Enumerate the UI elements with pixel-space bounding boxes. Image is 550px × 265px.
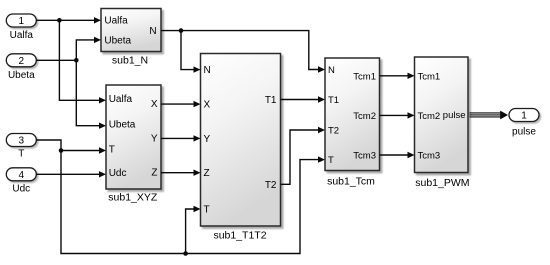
label T (inport 3) [18,148,24,159]
wire sub1_PWM pulse to outport (vector triple line) [470,111,509,120]
junction on inport2 wire [74,58,79,63]
svg-text:T1: T1 [265,95,277,106]
label sub1_XYZ [108,192,158,204]
wire sub1_Tcm Tcm2 to sub1_PWM Tcm2 [380,112,415,118]
svg-text:T2: T2 [265,180,277,191]
svg-text:Tcm1: Tcm1 [353,71,376,82]
svg-text:Tcm2: Tcm2 [353,111,376,122]
wire branch N to sub1_T1T2 N [181,31,201,73]
wire branch inport1 to sub1_XYZ Ualfa [59,20,106,103]
svg-text:Ubeta: Ubeta [109,120,136,131]
wire inport3 trunk (down and along bottom) [36,140,325,254]
svg-text:2: 2 [19,56,25,67]
junction inport3 wire to sub1_XYZ T [59,148,64,153]
svg-text:sub1_XYZ: sub1_XYZ [108,192,158,204]
subsystem sub1_N [101,9,161,52]
svg-text:Tcm3: Tcm3 [418,151,441,162]
svg-text:T: T [328,155,334,166]
svg-text:T: T [109,144,115,155]
label sub1_T1T2 [213,229,266,241]
label Ubeta (inport 2) [8,70,35,81]
wire sub1_T1T2 T2 to sub1_Tcm T2 [281,127,326,185]
wire sub1_N N output trunk to sub1_Tcm N [161,31,325,73]
svg-text:sub1_PWM: sub1_PWM [415,177,469,189]
svg-text:1: 1 [521,111,527,122]
wire sub1_XYZ Z to sub1_T1T2 Z [161,170,201,176]
wire branch inport2 to sub1_N Ubeta [76,37,101,61]
svg-text:Tcm3: Tcm3 [353,151,376,162]
wire inport2 trunk [36,59,76,61]
svg-text:Ualfa: Ualfa [109,94,133,105]
svg-text:Y: Y [151,133,158,144]
svg-text:4: 4 [19,170,25,181]
subsystem sub1_Tcm [325,58,380,171]
svg-text:Ubeta: Ubeta [104,36,131,47]
subsystem sub1_T1T2 [201,54,281,227]
inport 1 [6,14,36,27]
junction on inport1 wire [57,18,62,23]
wire sub1_XYZ Y to sub1_T1T2 Y [161,135,201,141]
wire sub1_XYZ X to sub1_T1T2 X [161,101,201,107]
wire branch inport2 to sub1_XYZ Ubeta [76,60,106,129]
svg-text:T1: T1 [328,95,339,106]
svg-text:X: X [151,99,158,110]
subsystem sub1_XYZ [106,85,161,189]
junction on N wire [179,28,184,33]
svg-text:X: X [204,100,211,111]
svg-text:Tcm1: Tcm1 [418,71,441,82]
svg-text:Y: Y [204,134,211,145]
svg-text:T: T [18,148,24,159]
wire sub1_T1T2 T1 to sub1_Tcm T1 [281,96,326,102]
label sub1_PWM [415,177,469,189]
junction bottom wire to sub1_T1T2 T [183,251,188,256]
svg-text:T: T [204,205,210,216]
label Udc (inport 4) [12,184,30,195]
wire inport4 to sub1_XYZ Udc [36,171,106,177]
svg-text:Udc: Udc [109,168,127,179]
svg-text:1: 1 [19,16,25,27]
label pulse (outport 1) [512,127,536,138]
inport 3 [6,134,36,147]
svg-text:3: 3 [19,136,25,147]
svg-text:N: N [328,65,335,76]
svg-text:T2: T2 [328,126,339,137]
svg-text:Z: Z [204,168,210,179]
wire sub1_Tcm Tcm1 to sub1_PWM Tcm1 [380,73,415,79]
label Ualfa (inport 1) [10,30,34,41]
wire branch to sub1_T1T2 T [186,206,201,254]
svg-text:Tcm2: Tcm2 [418,111,441,122]
svg-text:Ubeta: Ubeta [8,70,35,81]
svg-text:Ualfa: Ualfa [104,16,128,27]
svg-text:sub1_N: sub1_N [112,55,148,67]
svg-text:pulse: pulse [512,127,536,138]
svg-text:Udc: Udc [12,184,30,195]
label sub1_N [112,55,148,67]
svg-text:Z: Z [151,168,157,179]
svg-text:N: N [204,65,211,76]
svg-text:N: N [149,26,156,37]
subsystem sub1_PWM [415,57,469,173]
svg-text:sub1_T1T2: sub1_T1T2 [213,229,266,241]
wire sub1_Tcm Tcm3 to sub1_PWM Tcm3 [380,152,415,158]
wire inport1 to sub1_N Ualfa [36,17,101,23]
label sub1_Tcm [327,176,375,188]
wire branch to sub1_XYZ T [61,147,106,153]
svg-text:Ualfa: Ualfa [10,30,34,41]
inport 2 [6,54,36,67]
svg-text:sub1_Tcm: sub1_Tcm [327,176,375,188]
inport 4 [6,168,36,181]
outport 1 (pulse) [509,109,539,122]
svg-text:pulse: pulse [443,110,466,121]
